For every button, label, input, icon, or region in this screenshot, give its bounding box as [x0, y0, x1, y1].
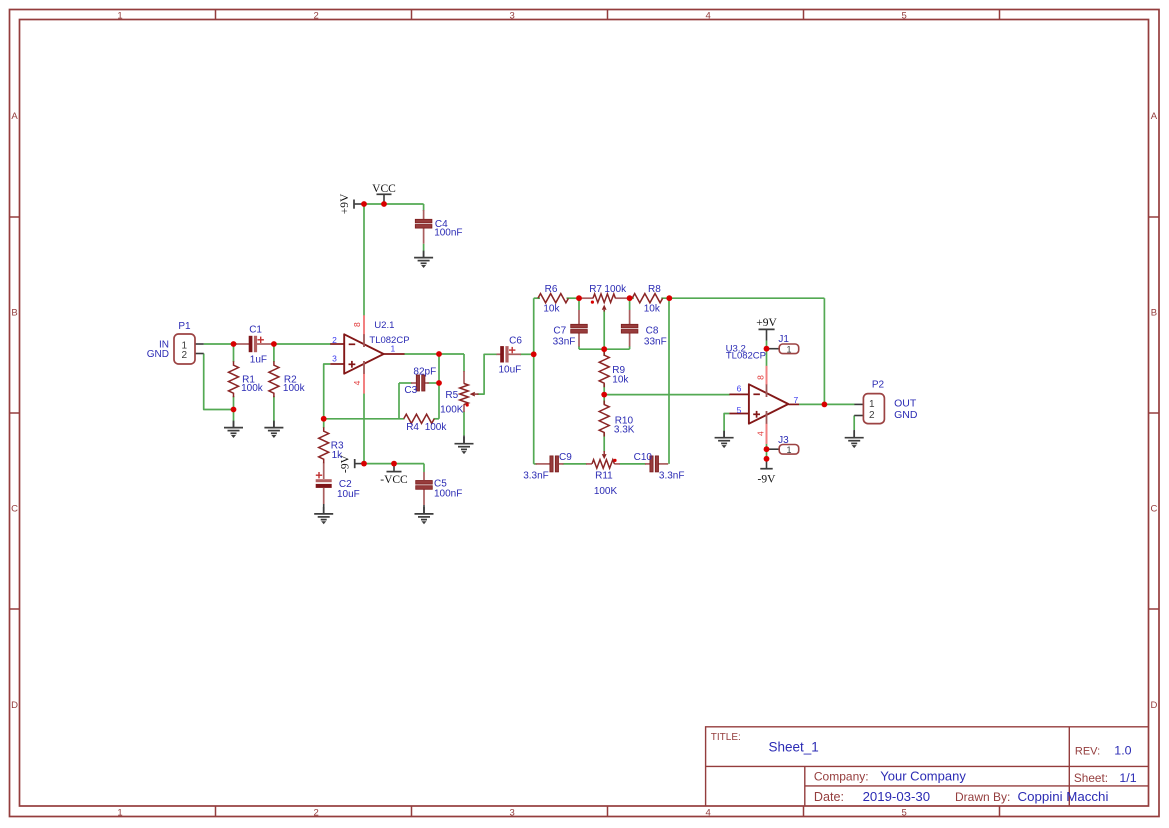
svg-text:Sheet_1: Sheet_1	[769, 739, 819, 754]
svg-text:10k: 10k	[644, 304, 661, 315]
svg-text:100k: 100k	[425, 422, 448, 433]
svg-text:REV:: REV:	[1075, 746, 1100, 758]
svg-text:A: A	[1151, 111, 1158, 122]
svg-text:D: D	[11, 700, 18, 711]
svg-text:100nF: 100nF	[434, 489, 462, 500]
svg-text:5: 5	[737, 405, 742, 415]
svg-text:4: 4	[755, 431, 765, 436]
svg-text:J1: J1	[778, 334, 789, 345]
svg-text:4: 4	[706, 807, 711, 818]
svg-text:10uF: 10uF	[499, 364, 522, 375]
svg-text:C10: C10	[634, 452, 653, 463]
svg-text:10uF: 10uF	[337, 489, 360, 500]
svg-text:5: 5	[902, 11, 907, 22]
svg-text:3.3K: 3.3K	[614, 424, 635, 435]
svg-text:8: 8	[352, 322, 362, 327]
svg-text:Sheet:: Sheet:	[1074, 771, 1108, 785]
svg-text:3.3nF: 3.3nF	[659, 471, 685, 482]
svg-text:C7: C7	[553, 326, 566, 337]
svg-text:VCC: VCC	[372, 183, 396, 195]
svg-text:GND: GND	[147, 349, 169, 360]
svg-text:GND: GND	[894, 409, 918, 421]
svg-text:10k: 10k	[612, 374, 629, 385]
svg-text:Date:: Date:	[814, 790, 844, 804]
svg-text:1.0: 1.0	[1114, 744, 1131, 758]
svg-text:P2: P2	[872, 379, 885, 390]
svg-text:1: 1	[786, 445, 791, 455]
svg-text:C6: C6	[509, 335, 522, 346]
svg-text:-9V: -9V	[758, 474, 777, 486]
svg-text:3: 3	[510, 807, 515, 818]
svg-text:A: A	[11, 111, 18, 122]
svg-text:R4: R4	[406, 422, 419, 433]
svg-text:33nF: 33nF	[644, 336, 667, 347]
svg-text:R7: R7	[589, 284, 602, 295]
svg-text:TL082CP: TL082CP	[726, 350, 766, 361]
svg-text:6: 6	[737, 384, 742, 394]
svg-text:P1: P1	[178, 321, 191, 332]
svg-text:100K: 100K	[594, 486, 618, 497]
svg-text:2: 2	[332, 335, 337, 345]
svg-text:3: 3	[510, 11, 515, 22]
svg-text:B: B	[1151, 308, 1157, 319]
svg-text:C9: C9	[559, 452, 572, 463]
svg-text:82pF: 82pF	[413, 367, 436, 378]
svg-text:TITLE:: TITLE:	[711, 732, 741, 743]
svg-text:2: 2	[182, 350, 188, 361]
svg-text:Your Company: Your Company	[880, 768, 966, 783]
svg-text:1: 1	[391, 343, 396, 353]
svg-text:D: D	[1150, 700, 1157, 711]
svg-text:1/1: 1/1	[1119, 771, 1136, 785]
svg-text:C: C	[11, 504, 18, 515]
svg-text:2019-03-30: 2019-03-30	[863, 789, 930, 804]
svg-text:R6: R6	[545, 284, 558, 295]
svg-text:2: 2	[314, 807, 319, 818]
svg-text:R8: R8	[648, 284, 661, 295]
svg-text:3.3nF: 3.3nF	[523, 471, 549, 482]
svg-text:C8: C8	[646, 326, 659, 337]
svg-text:1: 1	[117, 807, 122, 818]
svg-text:8: 8	[755, 375, 765, 380]
svg-text:B: B	[11, 308, 17, 319]
svg-text:OUT: OUT	[894, 398, 917, 410]
svg-text:1: 1	[869, 399, 875, 410]
svg-text:2: 2	[869, 410, 875, 421]
svg-text:4: 4	[706, 11, 711, 22]
svg-text:4: 4	[352, 380, 362, 385]
svg-text:1uF: 1uF	[250, 355, 267, 366]
svg-text:C: C	[1150, 504, 1157, 515]
svg-text:100K: 100K	[440, 405, 464, 416]
svg-text:C3: C3	[404, 385, 417, 396]
svg-text:2: 2	[314, 11, 319, 22]
svg-text:TL082CP: TL082CP	[369, 335, 409, 346]
svg-text:R5: R5	[445, 390, 458, 401]
svg-text:R11: R11	[595, 471, 613, 482]
svg-text:Company:: Company:	[814, 769, 869, 783]
svg-text:3: 3	[332, 354, 337, 364]
svg-text:U2.1: U2.1	[374, 320, 394, 331]
svg-text:1k: 1k	[332, 450, 344, 461]
svg-text:100k: 100k	[283, 383, 306, 394]
svg-text:-VCC: -VCC	[380, 474, 408, 486]
svg-text:Drawn By:: Drawn By:	[955, 790, 1010, 804]
svg-text:1: 1	[117, 11, 122, 22]
svg-text:100k: 100k	[604, 284, 627, 295]
svg-text:C1: C1	[249, 324, 262, 335]
svg-text:100nF: 100nF	[434, 228, 462, 239]
svg-text:+9V: +9V	[756, 317, 777, 329]
svg-text:10k: 10k	[543, 304, 560, 315]
svg-text:33nF: 33nF	[553, 336, 576, 347]
svg-text:+9V: +9V	[339, 193, 351, 214]
svg-text:5: 5	[902, 807, 907, 818]
svg-text:100k: 100k	[241, 383, 264, 394]
svg-text:7: 7	[794, 395, 799, 405]
svg-text:1: 1	[786, 344, 791, 354]
svg-text:Coppini Macchi: Coppini Macchi	[1018, 789, 1109, 804]
